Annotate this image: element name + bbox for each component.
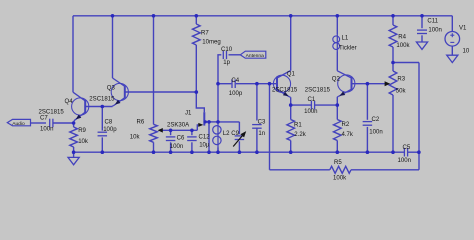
svg-text:Q2: Q2 [332, 76, 341, 82]
wire V+ top rail [73, 15, 452, 17]
junction dots on V+ rail [111, 14, 424, 18]
svg-text:R2: R2 [342, 122, 350, 128]
junction C1 right / Q2 emitter [336, 103, 340, 107]
wire AF feedback drop from Q1 base node [269, 84, 271, 170]
wire R7 bottom lead to node D [195, 45, 197, 92]
junction J1 source drop [207, 120, 211, 124]
wire R6 bottom lead [153, 142, 155, 152]
wire emitter node to C1 left [291, 104, 311, 106]
svg-text:100k: 100k [333, 176, 347, 182]
resistor R5 [330, 160, 351, 182]
wire ground rail left segment [74, 151, 405, 153]
svg-text:C8: C8 [105, 120, 113, 126]
svg-text:V1: V1 [459, 25, 467, 31]
svg-text:R4: R4 [398, 34, 406, 40]
svg-text:100n: 100n [170, 144, 183, 150]
wire R6 wiper row to J1 gate [162, 129, 197, 131]
wire R2 bottom lead [336, 141, 338, 153]
wire ground rail right of C5 [408, 151, 419, 153]
svg-text:Audio: Audio [12, 121, 25, 127]
wire R5 right lead to right branch [351, 169, 419, 171]
wire J1 source to tank top [205, 121, 218, 123]
wire L1 bottom to Q2 collector [336, 52, 338, 71]
capacitor C10 [221, 47, 233, 66]
svg-text:Q1: Q1 [287, 71, 296, 77]
svg-text:R6: R6 [137, 119, 145, 125]
wire C8 bottom lead [101, 137, 103, 152]
wire C3 bottom lead [256, 128, 258, 153]
wire R9 top lead [73, 123, 75, 127]
svg-text:100n: 100n [428, 28, 441, 34]
net flag Audio [7, 119, 30, 127]
capacitor C1 [304, 97, 317, 115]
svg-text:J1: J1 [185, 111, 192, 117]
transistor Q1 [272, 71, 298, 98]
JFET J1 [167, 111, 204, 129]
wire Q3 base to node D [125, 91, 197, 93]
wire L1 top lead [336, 16, 338, 34]
wire tank top to C9 [218, 121, 239, 123]
svg-text:C1: C1 [308, 97, 316, 103]
wire J1 gate jog [197, 125, 199, 130]
junction tank / C4 tap [216, 82, 220, 86]
transistor Q3 [89, 78, 128, 107]
svg-text:L2: L2 [223, 131, 230, 137]
wire antenna coupling: C10 left elbow down tank [218, 55, 221, 122]
capacitor C7 [40, 115, 53, 132]
svg-text:C9: C9 [231, 131, 239, 137]
resistor R7 [193, 24, 221, 46]
svg-text:2SK30A: 2SK30A [167, 122, 190, 128]
junction R6 wiper / C6 [169, 129, 173, 133]
wire C11 top lead [421, 16, 423, 28]
junction J1 source at channel [204, 120, 207, 123]
svg-text:2SC1815: 2SC1815 [39, 110, 65, 116]
voltage source V1 [445, 25, 470, 54]
svg-text:100k: 100k [396, 43, 410, 49]
wire C3 top lead [256, 84, 258, 121]
svg-text:1n: 1n [258, 131, 265, 137]
svg-text:C6: C6 [177, 135, 185, 141]
svg-text:1p: 1p [223, 60, 230, 66]
wire right branch vertical [418, 63, 420, 170]
junction dots on ground rail [72, 150, 421, 154]
wire J1 drain lead [196, 92, 204, 112]
ground below C11 [416, 42, 427, 49]
svg-text:R7: R7 [201, 30, 209, 36]
svg-text:10meg: 10meg [202, 40, 221, 46]
wire V+ rail corner down to V1 [451, 16, 453, 32]
capacitor C11 [417, 19, 442, 34]
wire Q2 emitter drop [336, 97, 338, 105]
transistor Q2 [305, 71, 355, 97]
wire R3 bottom lead to ground rail [392, 95, 394, 152]
wire L2 bottom lead [217, 148, 219, 153]
capacitor C6 [166, 135, 185, 150]
svg-text:R1: R1 [294, 122, 302, 128]
junction Q1 base / C3 [255, 82, 259, 86]
svg-text:C3: C3 [258, 119, 266, 125]
wire ground stem at rail left end [73, 152, 75, 157]
capacitor C5 [398, 145, 411, 164]
wire Q3 collector riser [112, 16, 114, 78]
wire C10 right lead to antenna flag [229, 54, 241, 56]
ground below V1 [447, 55, 458, 62]
wire C6 top lead [170, 130, 172, 135]
svg-text:Q3: Q3 [107, 86, 116, 92]
wire Q1 collector riser [290, 16, 292, 71]
inductor L2 [213, 122, 230, 152]
svg-text:10µ: 10µ [199, 142, 210, 148]
svg-text:100n: 100n [40, 127, 53, 133]
resistor R9 [70, 127, 89, 147]
wire R2 top lead [336, 105, 338, 119]
wire node X to right branch [393, 62, 419, 64]
wire R7 top lead [195, 16, 197, 24]
ground at rail left end [68, 157, 79, 164]
svg-text:100n: 100n [304, 109, 317, 115]
wire C4 left lead from tank [218, 83, 231, 85]
svg-text:C5: C5 [403, 145, 411, 151]
svg-text:L1: L1 [342, 35, 349, 41]
capacitor C12 [187, 135, 210, 149]
wire Q2 base row to R3 wiper [352, 83, 386, 85]
wire J1 source drop to ground rail [208, 122, 210, 152]
wire C8 top lead [101, 107, 103, 131]
resistor R6 (regeneration pot) [130, 119, 163, 142]
capacitor C3 [252, 119, 266, 136]
wire C6 bottom lead [170, 142, 172, 152]
junction node X R4/R3 [391, 61, 395, 65]
wire R1 top lead [290, 105, 292, 119]
wire feedback row to R5 [270, 169, 330, 171]
svg-text:100n: 100n [369, 130, 382, 136]
junction Q1 base / feedback [268, 82, 272, 86]
svg-text:C10: C10 [221, 47, 233, 53]
wire C2 bottom lead [366, 127, 368, 152]
capacitor C8 [98, 120, 118, 136]
wire R6 riser from V+ rail [153, 16, 155, 125]
wire C1 right to Q2 emitter node [315, 104, 337, 106]
junction Q4 emitter node [72, 121, 76, 125]
svg-text:10k: 10k [78, 139, 89, 145]
svg-text:10k: 10k [130, 134, 141, 140]
junction Q4 base / C8 [101, 105, 105, 109]
junction tank top [216, 120, 220, 124]
wire Q1 emitter drop [290, 97, 292, 105]
variable capacitor C9 (tuning) [231, 131, 246, 147]
svg-text:Q4: Q4 [65, 99, 74, 105]
junction C1 left / Q1 emitter [289, 103, 293, 107]
wire C11 bottom lead [421, 35, 423, 42]
svg-text:R9: R9 [78, 128, 86, 134]
capacitor C4 [229, 78, 243, 97]
svg-text:C4: C4 [231, 78, 239, 84]
inductor L1 Tickler [333, 34, 357, 52]
svg-text:100n: 100n [398, 158, 411, 164]
wire Q4 collector riser [72, 16, 74, 92]
svg-text:R3: R3 [397, 77, 405, 83]
svg-text:Antenna: Antenna [246, 53, 265, 59]
svg-text:50k: 50k [396, 89, 407, 95]
svg-text:4.7k: 4.7k [342, 132, 354, 138]
wire C12 top lead [191, 130, 193, 135]
svg-text:C2: C2 [372, 117, 380, 123]
svg-text:C12: C12 [199, 135, 211, 141]
wire R4 top lead [392, 16, 394, 25]
wire C9 bottom lead [238, 141, 240, 152]
svg-text:2.2k: 2.2k [294, 132, 306, 138]
wire R4 to R3 node X [392, 47, 394, 71]
svg-text:10: 10 [463, 48, 470, 54]
wire R9 bottom lead [73, 147, 75, 152]
svg-text:C11: C11 [427, 19, 438, 25]
junction node D (R7/Q3 base/J1 drain) [195, 90, 199, 94]
svg-text:100p: 100p [229, 91, 243, 97]
net flag Antenna [240, 51, 265, 59]
wire Q4 base to Q3 emitter [85, 106, 112, 108]
junction Q2 base / C2 [366, 82, 370, 86]
wire C4 right lead to Q1 base [236, 83, 277, 85]
wire audio output row [31, 122, 47, 124]
svg-text:Tickler: Tickler [339, 45, 357, 51]
svg-text:100p: 100p [103, 127, 117, 133]
resistor R4 [389, 25, 410, 49]
capacitor C2 [363, 117, 383, 136]
wire R1 bottom lead [290, 141, 292, 153]
transistor Q4 [39, 92, 89, 123]
svg-text:2SC1815: 2SC1815 [89, 96, 115, 102]
svg-text:2SC1815: 2SC1815 [272, 88, 298, 94]
wire V1 bottom lead [451, 46, 453, 55]
wire C12 bottom lead [191, 142, 193, 152]
junction R6 wiper / C12 [190, 129, 194, 133]
svg-text:2SC1815: 2SC1815 [305, 88, 331, 94]
wire C2 top lead [366, 84, 368, 120]
svg-text:R5: R5 [334, 160, 342, 166]
svg-text:C7: C7 [40, 115, 48, 121]
resistor R1 [287, 120, 307, 141]
resistor R2 [334, 120, 354, 141]
resistor R3 (volume pot) [385, 71, 407, 95]
wire C7 to Q4 emitter node [53, 122, 73, 124]
wire C9 top lead [238, 122, 240, 134]
